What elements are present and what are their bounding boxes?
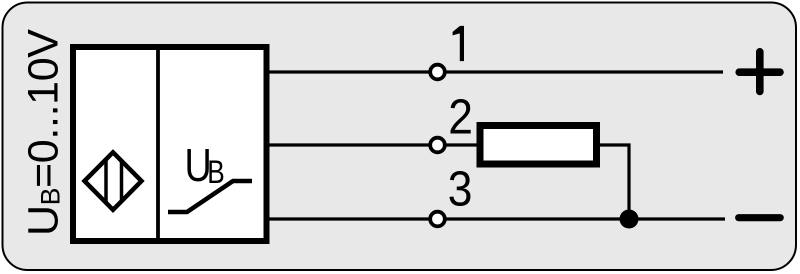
plus terminal <box>739 52 780 92</box>
wire 2 (box to terminal 2) <box>270 143 430 146</box>
sensor box divider <box>156 44 160 244</box>
terminal 2 <box>430 138 445 153</box>
wire 3 (terminal 3 to minus) <box>446 217 725 220</box>
label UB (sensor output voltage) <box>185 139 225 191</box>
wire (resistor to junction) <box>600 145 629 219</box>
minus terminal <box>739 214 781 221</box>
wire 1 (terminal 1 to plus) <box>446 70 723 73</box>
supply label UB=0...10V <box>20 29 68 236</box>
load resistor <box>480 126 597 165</box>
sensor box <box>73 47 267 241</box>
wire 1 (box to terminal 1) <box>270 70 430 73</box>
wire 3 (box to terminal 3) <box>270 217 430 220</box>
label 3 <box>448 161 473 216</box>
inductive sensor symbol (diamond) <box>85 152 142 210</box>
terminal 1 <box>430 65 445 80</box>
wire 2 (terminal 2 to load resistor) <box>446 143 480 146</box>
analog output ramp symbol <box>168 181 252 212</box>
label 2 <box>448 89 473 144</box>
label 1 (custom Arial-style digit) <box>453 26 464 61</box>
terminal 3 <box>430 212 445 227</box>
junction dot <box>620 210 639 229</box>
svg-text:3: 3 <box>448 161 473 216</box>
svg-text:2: 2 <box>448 89 473 144</box>
